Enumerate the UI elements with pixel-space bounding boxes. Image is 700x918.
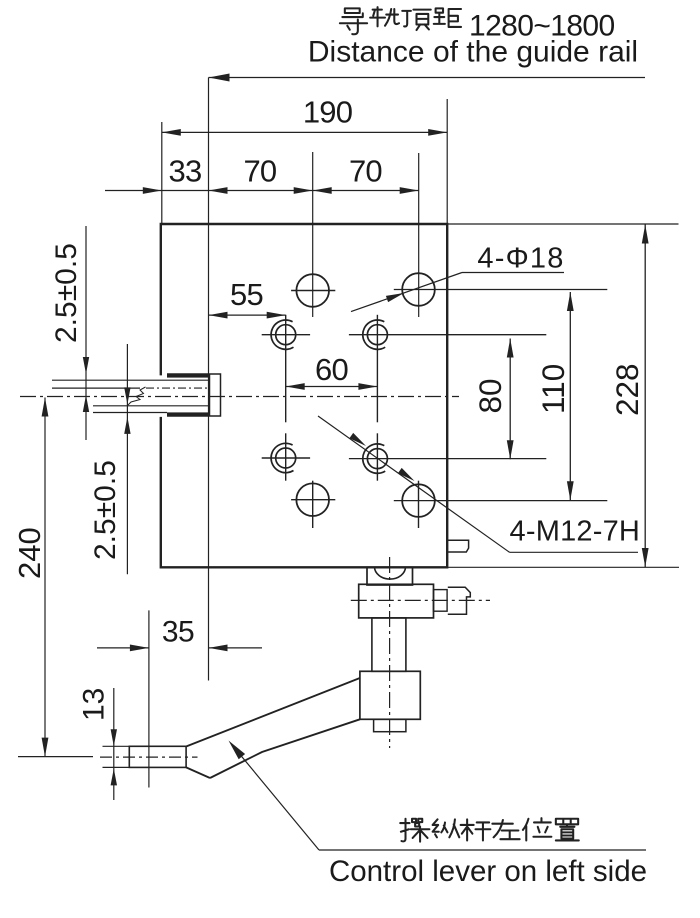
- svg-text:60: 60: [315, 352, 348, 387]
- svg-text:55: 55: [230, 277, 263, 312]
- svg-text:35: 35: [162, 616, 194, 649]
- svg-text:2.5±0.5: 2.5±0.5: [89, 460, 122, 560]
- svg-text:228: 228: [609, 363, 645, 416]
- svg-text:110: 110: [535, 364, 571, 414]
- svg-text:4-Φ18: 4-Φ18: [477, 243, 564, 275]
- svg-text:33: 33: [169, 154, 202, 189]
- svg-text:2.5±0.5: 2.5±0.5: [50, 243, 83, 343]
- svg-text:13: 13: [78, 688, 111, 721]
- svg-text:80: 80: [472, 378, 508, 413]
- svg-text:240: 240: [12, 527, 47, 579]
- svg-text:70: 70: [243, 154, 276, 189]
- svg-text:70: 70: [349, 154, 382, 189]
- svg-text:190: 190: [303, 95, 353, 130]
- svg-text:4-M12-7H: 4-M12-7H: [510, 516, 641, 548]
- svg-text:Distance of the guide rail: Distance of the guide rail: [308, 36, 638, 69]
- svg-text:Control lever on left side: Control lever on left side: [329, 855, 647, 888]
